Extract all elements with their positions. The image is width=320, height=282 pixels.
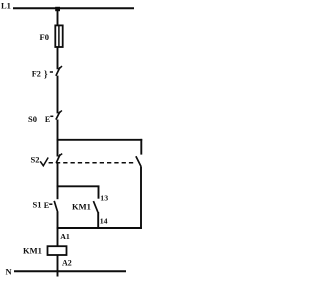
wire L1 rail bbox=[13, 7, 134, 9]
F2 thermal release symbol bbox=[44, 69, 53, 79]
fuse F0 value label bbox=[40, 32, 49, 42]
junction at L1 rail bbox=[55, 7, 60, 11]
pin 13 label bbox=[100, 193, 108, 202]
svg-text:S1: S1 bbox=[33, 200, 42, 210]
wire fuse to F2 bbox=[57, 47, 59, 69]
contact F2 (NC overload) bbox=[56, 66, 62, 76]
wire branch to right pole (top) bbox=[57, 139, 143, 141]
coil KM1 label bbox=[23, 246, 42, 256]
S1 actuator symbol bbox=[44, 201, 53, 210]
svg-text:E: E bbox=[44, 201, 49, 210]
pin A2 label bbox=[62, 258, 72, 267]
svg-text:}: } bbox=[44, 69, 48, 79]
svg-text:L1: L1 bbox=[1, 1, 11, 11]
wire L1 to fuse bbox=[57, 8, 59, 26]
pin 14 label bbox=[100, 217, 108, 226]
contact KM1 aux (NO, 13-14) bbox=[93, 186, 98, 229]
contact S2 pole 1 (NC) bbox=[56, 154, 62, 163]
S2 actuator symbol bbox=[40, 158, 48, 166]
coil KM1 (A1-A2) bbox=[48, 246, 67, 255]
contact S1 (NO start button) bbox=[54, 201, 58, 212]
node N label bbox=[6, 267, 13, 277]
svg-text:A2: A2 bbox=[62, 258, 72, 267]
svg-text:KM1: KM1 bbox=[72, 202, 91, 212]
wire S0 to S2 bbox=[57, 120, 59, 157]
wire N rail bbox=[14, 270, 126, 272]
wire S1 to coil bbox=[57, 212, 59, 247]
contact S2 pole 2 bbox=[136, 156, 141, 166]
svg-text:F2: F2 bbox=[32, 69, 41, 78]
node L1 label bbox=[1, 1, 11, 11]
svg-text:S0: S0 bbox=[28, 114, 37, 124]
wire branch rejoin (bottom) bbox=[57, 227, 142, 229]
svg-text:KM1: KM1 bbox=[23, 246, 42, 256]
fuse F0 bbox=[55, 25, 62, 48]
svg-text:14: 14 bbox=[100, 217, 108, 226]
svg-text:E: E bbox=[45, 115, 50, 124]
wire branch to KM1 aux contact (top) bbox=[57, 185, 100, 187]
svg-text:A1: A1 bbox=[60, 232, 70, 241]
S0 actuator symbol bbox=[45, 115, 53, 124]
wire F2 to S0 bbox=[57, 76, 59, 114]
svg-text:13: 13 bbox=[100, 193, 108, 202]
svg-text:N: N bbox=[6, 267, 13, 277]
wire right pole vertical (lower) bbox=[140, 167, 142, 229]
wire coil to N bbox=[57, 255, 59, 277]
contact KM1 aux label bbox=[72, 202, 91, 212]
pushbutton S0 label bbox=[28, 114, 37, 124]
wire S2 to S1 bbox=[57, 163, 59, 199]
contact F2 label bbox=[32, 69, 41, 78]
switch S2 label bbox=[31, 155, 40, 165]
svg-text:S2: S2 bbox=[31, 155, 40, 165]
mechanical linkage dashed line bbox=[49, 162, 135, 164]
wire right pole vertical (upper) bbox=[140, 139, 142, 155]
pushbutton S1 label bbox=[33, 200, 42, 210]
svg-text:F0: F0 bbox=[40, 32, 49, 42]
pin A1 label bbox=[60, 232, 70, 241]
contact S0 (NC stop button) bbox=[56, 111, 62, 120]
